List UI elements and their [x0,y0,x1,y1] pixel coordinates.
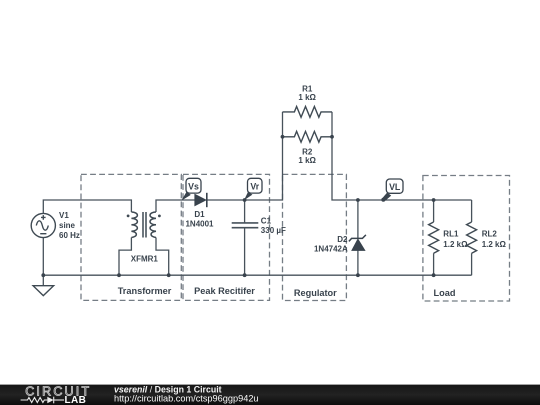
svg-text:RL2: RL2 [482,230,498,239]
svg-text:http://circuitlab.com/ctsp96gg: http://circuitlab.com/ctsp96ggp942u [114,394,259,404]
capacitor C1 [232,223,259,228]
junction D2 cathode net [356,198,360,202]
svg-text:sine: sine [59,221,76,230]
svg-text:R2: R2 [302,147,313,156]
diode D1 [195,193,207,207]
resistor RL2 [467,222,477,253]
svg-text:1 kΩ: 1 kΩ [298,156,316,165]
zener diode D2 [349,235,366,251]
wire C1 top lead [244,200,246,223]
wire ground stub [42,275,44,286]
node flag Vs [181,178,201,200]
wire secondary top to D1 anode [156,200,195,212]
footer logo squiggle [21,397,64,404]
junction C1 bottom / ground rail [243,273,247,277]
wire zener D2 top lead [357,200,359,238]
junction R2 left end [281,135,285,139]
svg-text:D1: D1 [194,210,205,219]
svg-text:1N4742A: 1N4742A [314,245,348,254]
node flag VL [381,179,403,202]
wire RL2 leads [471,200,473,275]
ground [33,286,54,296]
svg-text:1 kΩ: 1 kΩ [298,93,316,102]
junction RL1 top net VL [432,198,436,202]
junction node Vr / C1 top [243,198,247,202]
junction V1 bottom / ground rail [41,273,45,277]
svg-text:XFMR1: XFMR1 [131,255,159,264]
wire ground rail [43,274,471,276]
svg-text:Vr: Vr [250,181,259,191]
wire V1 top to transformer primary [43,200,131,213]
junction XFMR1 primary bottom / ground rail [117,273,121,277]
wire transformer primary bottom to ground [119,238,131,276]
node flag Vr [244,178,262,200]
svg-text:RL1: RL1 [443,230,459,239]
svg-text:D2: D2 [337,235,348,244]
wire V1 bottom lead [42,238,44,276]
svg-text:Vs: Vs [188,181,199,191]
svg-text:LAB: LAB [65,395,87,405]
wire transformer secondary bottom to ground [156,238,169,276]
footer bar [0,385,540,405]
svg-text:C1: C1 [261,216,272,225]
svg-text:Transformer: Transformer [118,286,172,296]
wire right riser down and VL rail to load [332,112,472,200]
junction RL1 bottom / ground rail [432,273,436,277]
svg-text:VL: VL [389,182,401,192]
dashed section box: Load [423,176,510,302]
resistor R1 [283,107,333,118]
resistor R2 [283,131,333,142]
junction D2 anode / ground rail [356,273,360,277]
transformer XFMR1 [131,212,156,238]
svg-text:Load: Load [434,288,456,298]
dashed section box: Transformer [81,174,181,300]
wire C1 bottom lead [244,228,246,276]
XFMR1 secondary phase dot [158,215,161,218]
dashed section box: Peak Recitifer [183,174,270,300]
source V1 [31,213,55,237]
wire RL1 leads [433,200,435,275]
svg-text:1.2 kΩ: 1.2 kΩ [443,240,468,249]
svg-text:1.2 kΩ: 1.2 kΩ [482,240,507,249]
svg-text:V1: V1 [59,211,69,220]
XFMR1 primary phase dot [127,215,130,218]
wire zener D2 bottom lead [357,251,359,276]
resistor RL1 [429,222,439,253]
svg-text:Regulator: Regulator [294,288,337,298]
svg-text:Peak Recitifer: Peak Recitifer [194,286,255,296]
svg-text:1N4001: 1N4001 [185,219,214,228]
svg-text:330 µF: 330 µF [261,226,286,235]
junction R2 right end [330,135,334,139]
junction XFMR1 secondary bottom / ground rail [167,273,171,277]
wire D1 cathode to left riser, up [207,112,283,200]
dashed section box: Regulator [283,174,347,300]
svg-text:60 Hz: 60 Hz [59,231,80,240]
